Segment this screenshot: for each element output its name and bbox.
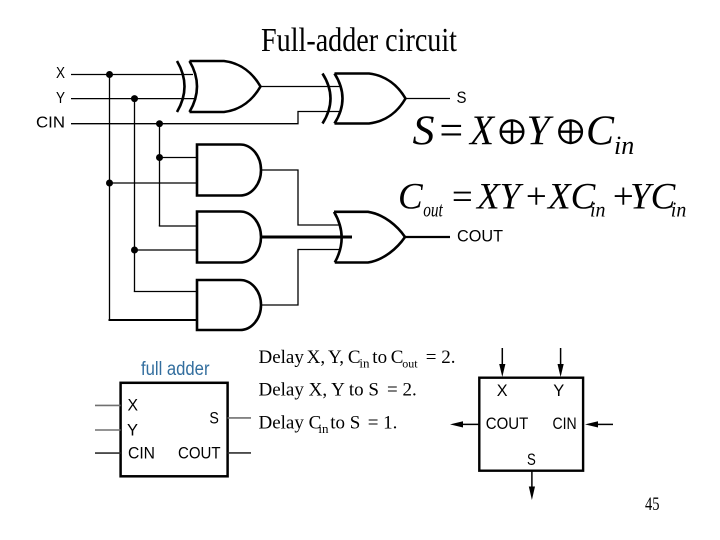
full adder box <box>121 383 228 477</box>
wire X to AND1 lower <box>110 182 198 184</box>
xor symbol 2 <box>559 120 582 143</box>
wire U4 output to OR (thick) <box>261 236 352 239</box>
stub S output <box>228 417 251 419</box>
svg-text:Delay C: Delay C <box>259 413 322 434</box>
stub COUT output <box>228 452 251 454</box>
wire Y to AND2 lower <box>135 249 198 251</box>
svg-text:to S: to S <box>330 413 360 434</box>
svg-text:C: C <box>398 177 424 218</box>
svg-text:= 2.: = 2. <box>426 347 456 368</box>
svg-text:CIN: CIN <box>553 414 577 433</box>
svg-text:in: in <box>318 421 329 436</box>
svg-text:Y: Y <box>527 109 555 155</box>
svg-text:+: + <box>524 177 549 218</box>
svg-text:Delay: Delay <box>259 347 305 368</box>
node CIN junction <box>156 120 163 127</box>
wire U3 output to OR <box>261 170 340 225</box>
svg-text:S: S <box>457 88 467 107</box>
xor gate U1 body <box>190 61 261 112</box>
svg-text:full adder: full adder <box>141 359 210 380</box>
svg-text:= 2.: = 2. <box>387 380 417 401</box>
svg-text:YC: YC <box>630 177 677 218</box>
xor gate U2 body <box>335 74 406 124</box>
svg-text:out: out <box>423 198 443 222</box>
node X branch to AND1 <box>106 180 113 187</box>
and gate U3 <box>197 145 261 196</box>
and gate U5 <box>197 280 261 330</box>
svg-text:in: in <box>614 131 634 160</box>
wire CIN input with jog to xor U2 <box>71 112 340 124</box>
svg-text:X: X <box>128 396 139 415</box>
or gate U6 <box>334 212 405 263</box>
formula S = X xor Y xor Cin <box>413 109 635 160</box>
svg-text:COUT: COUT <box>486 414 529 433</box>
svg-text:S: S <box>413 109 435 155</box>
wire Y to AND3 upper <box>134 291 197 293</box>
delay text line 2 <box>259 380 417 401</box>
wire COUT output <box>405 236 450 238</box>
svg-text:in: in <box>671 198 687 222</box>
xor gate U1 input arc <box>177 61 185 112</box>
wire CIN to AND1 upper <box>160 157 198 159</box>
stub CIN input <box>95 452 121 454</box>
arrow out of COUT <box>450 421 479 427</box>
node CIN branch to AND1 <box>156 154 163 161</box>
wire U1 output to U2 <box>261 86 341 88</box>
svg-text:out: out <box>402 357 418 371</box>
svg-text:in: in <box>359 356 370 371</box>
svg-text:=: = <box>450 177 475 218</box>
svg-text:= 1.: = 1. <box>368 413 398 434</box>
svg-text:Full-adder circuit: Full-adder circuit <box>261 22 457 59</box>
delay text line 3 <box>259 413 398 437</box>
svg-text:Y: Y <box>56 90 65 107</box>
wire Y vertical <box>134 99 136 292</box>
wire S output <box>406 98 451 100</box>
node X junction <box>106 71 113 78</box>
svg-text:Y: Y <box>553 381 564 400</box>
wire X to AND3 lower <box>109 319 198 321</box>
svg-text:Delay X, Y to S: Delay X, Y to S <box>259 380 380 401</box>
svg-text:XY: XY <box>475 177 524 218</box>
svg-text:=: = <box>437 109 465 155</box>
xor gate U2 input arc <box>323 74 331 124</box>
delay block box <box>479 378 583 471</box>
node Y branch to AND2 <box>131 247 138 254</box>
svg-text:X: X <box>56 65 65 82</box>
svg-text:S: S <box>209 409 219 428</box>
arrow into Y <box>558 348 564 377</box>
wire U5 output to OR <box>261 250 340 306</box>
svg-text:S: S <box>527 450 536 469</box>
svg-text:X: X <box>468 109 496 155</box>
svg-text:Y: Y <box>127 421 138 440</box>
wire Y input <box>71 98 195 100</box>
svg-text:COUT: COUT <box>457 227 503 246</box>
arrow into X <box>499 348 505 377</box>
arrow out of S <box>529 471 535 500</box>
svg-text:Y,: Y, <box>328 347 344 368</box>
stub Y input <box>95 429 121 431</box>
arrow into CIN <box>585 421 613 427</box>
delay text line 1 <box>259 347 456 371</box>
wire X input <box>71 74 193 76</box>
svg-text:CIN: CIN <box>36 114 65 131</box>
formula Cout = XY + XCin + YCin <box>398 177 686 222</box>
wire CIN to AND2 upper <box>159 225 197 227</box>
svg-text:X: X <box>497 381 508 400</box>
svg-text:C: C <box>586 109 615 155</box>
node Y junction <box>131 95 138 102</box>
xor symbol 1 <box>501 120 524 143</box>
svg-text:to: to <box>372 347 387 368</box>
svg-text:X,: X, <box>307 347 325 368</box>
svg-text:45: 45 <box>645 494 660 515</box>
wire CIN vertical <box>159 124 161 226</box>
svg-text:XC: XC <box>546 177 597 218</box>
wire X vertical <box>109 75 111 321</box>
stub X input <box>95 404 121 406</box>
and gate U4 <box>197 212 261 263</box>
svg-text:COUT: COUT <box>178 444 221 463</box>
svg-text:in: in <box>590 198 606 222</box>
svg-text:CIN: CIN <box>128 444 155 463</box>
